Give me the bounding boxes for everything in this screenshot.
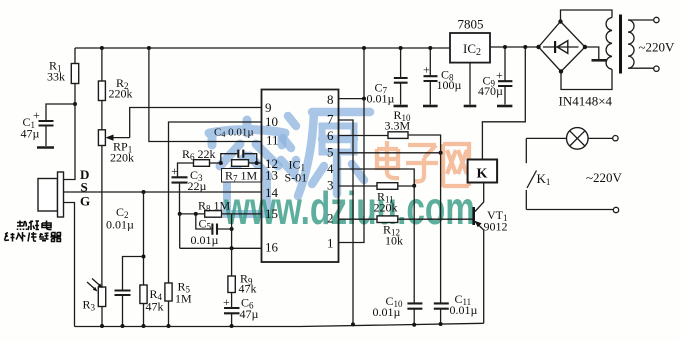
- node bus/pin8: [362, 46, 366, 50]
- svg-text:0.01µ: 0.01µ: [450, 303, 478, 317]
- svg-text:470µ: 470µ: [478, 84, 503, 98]
- switch K1: [526, 138, 550, 209]
- svg-text:22µ: 22µ: [188, 179, 207, 193]
- node bus/R2: [100, 46, 104, 50]
- node A pin12 net: [219, 161, 223, 165]
- wire pin 5: [339, 152, 441, 154]
- node bus/C9: [503, 45, 507, 49]
- capacitor C6: [223, 295, 259, 326]
- node bridge top corner: [558, 19, 562, 23]
- transformer secondary winding: [628, 20, 634, 68]
- svg-text:8: 8: [327, 92, 334, 107]
- lamp circuit top wire: [526, 137, 566, 139]
- wire bus to pin 11: [149, 48, 262, 142]
- svg-text:16: 16: [265, 240, 279, 255]
- svg-text:220k: 220k: [110, 151, 134, 165]
- node bus/C2: [121, 324, 125, 328]
- capacitor C9: [478, 47, 512, 105]
- terminal circle top: [654, 17, 659, 22]
- svg-text:+: +: [223, 295, 230, 309]
- capacitor C5: [191, 214, 232, 247]
- node bus/R3: [100, 324, 104, 328]
- svg-text:0.01µ: 0.01µ: [373, 305, 401, 319]
- ground bar under C7: [394, 105, 408, 108]
- bridge diode symbol: [543, 41, 579, 54]
- bridge rectifier diamond: [539, 22, 586, 72]
- node bridge left corner: [536, 45, 540, 49]
- svg-text:~220V: ~220V: [586, 170, 623, 185]
- capacitor C3: [171, 164, 207, 214]
- terminal circle lamp: [613, 136, 618, 141]
- capacitor C11: [434, 153, 478, 324]
- resistor R4: [140, 192, 164, 326]
- resistor R10: [339, 108, 441, 153]
- pyro sensor body: [38, 167, 90, 217]
- wire RP1 bottom to R3: [101, 146, 103, 288]
- svg-text:S-01: S-01: [285, 171, 308, 185]
- node bus/C6: [230, 324, 234, 328]
- node bus/C10: [412, 323, 416, 327]
- resistor R2: [98, 48, 132, 130]
- wire switch to terminal: [526, 209, 613, 211]
- svg-text:+: +: [423, 63, 430, 77]
- wire pin 8 to bus: [339, 48, 365, 99]
- resistor R8: [198, 199, 231, 218]
- wire C5 node vertical: [231, 214, 233, 248]
- terminal circle bottom right: [613, 207, 618, 212]
- wire pin8 node down to pin1: [339, 99, 365, 243]
- resistor R9: [228, 248, 257, 307]
- svg-text:14: 14: [265, 185, 279, 200]
- node bus/K feed: [523, 45, 527, 49]
- svg-text:1M: 1M: [175, 292, 192, 306]
- node B pin12 net: [255, 161, 259, 165]
- node R1/C1/D junction: [73, 102, 77, 106]
- lamp symbol: [567, 128, 589, 150]
- svg-text:6: 6: [327, 128, 334, 143]
- svg-text:~220V: ~220V: [639, 40, 676, 55]
- ground bar under C8: [423, 105, 438, 108]
- wire bridge top to transformer: [561, 10, 613, 22]
- svg-text:+: +: [496, 68, 503, 82]
- svg-text:R6 22k: R6 22k: [182, 147, 216, 162]
- wire pin 7 to ground bus: [339, 120, 354, 324]
- wire sensor G lead to ground bus: [64, 203, 75, 327]
- node bridge bottom corner: [559, 69, 563, 73]
- resistor R6: [178, 147, 221, 177]
- svg-text:1: 1: [327, 236, 334, 251]
- svg-text:R7 1M: R7 1M: [225, 169, 258, 184]
- svg-text:15: 15: [265, 206, 278, 221]
- capacitor C7: [367, 48, 408, 106]
- svg-text:+: +: [171, 164, 178, 178]
- wire bridge right to ground: [585, 47, 599, 59]
- node bus/pin7: [351, 322, 355, 326]
- node C3/R8/pin16 junction: [178, 212, 182, 216]
- wire RP1 wiper to pin 9: [130, 108, 262, 138]
- svg-text:0.01µ: 0.01µ: [106, 218, 134, 232]
- svg-text:47µ: 47µ: [21, 127, 40, 141]
- node R8 left / C5 branch: [194, 212, 198, 216]
- watermark salmon char WANG: [443, 144, 469, 187]
- wire K feed from bus: [482, 47, 525, 160]
- svg-text:7: 7: [327, 112, 334, 127]
- ground bar under IC2: [464, 105, 477, 108]
- svg-text:10k: 10k: [385, 234, 403, 248]
- capacitor C10: [373, 186, 423, 325]
- node pin4/R11/C10: [412, 184, 416, 188]
- svg-text:2: 2: [327, 211, 334, 226]
- wire secondary top terminal: [628, 19, 654, 21]
- svg-text:47k: 47k: [146, 300, 164, 314]
- svg-text:220k: 220k: [109, 87, 133, 101]
- wire bridge bottom to transformer: [561, 69, 612, 89]
- voltage regulator IC2 7805: [450, 17, 490, 105]
- label pyro sensor line2 (infrared sensor): [5, 232, 62, 242]
- capacitor C8: [423, 48, 462, 105]
- svg-text:R8 1M: R8 1M: [198, 199, 231, 214]
- wire lamp to terminal: [588, 137, 613, 139]
- svg-text:K: K: [477, 167, 488, 182]
- svg-text:0.01µ: 0.01µ: [367, 92, 395, 106]
- svg-text:7805: 7805: [458, 17, 484, 32]
- wire pin15 line: [180, 213, 262, 215]
- node bridge right corner: [583, 45, 587, 49]
- capacitor C2: [106, 205, 144, 326]
- svg-text:C4 0.01µ: C4 0.01µ: [214, 127, 254, 140]
- node bus/R4: [142, 324, 146, 328]
- svg-text:100µ: 100µ: [437, 78, 462, 92]
- node bus/C8: [428, 46, 432, 50]
- node bus/C11: [439, 322, 443, 326]
- wire pin 4: [339, 169, 415, 186]
- transformer core: [619, 15, 622, 74]
- svg-text:47k: 47k: [239, 282, 257, 296]
- svg-text:3: 3: [327, 178, 334, 193]
- resistor R5: [165, 280, 192, 327]
- watermark blue char YUAN: [281, 112, 370, 196]
- ground bar under C1: [37, 146, 54, 149]
- node R10/pin5/C11: [439, 151, 443, 155]
- node S/R4 junction: [142, 190, 146, 194]
- svg-text:10: 10: [265, 114, 278, 129]
- svg-text:0.01µ: 0.01µ: [191, 233, 219, 247]
- ground bus bottom: [75, 323, 484, 326]
- capacitor C4: [214, 127, 257, 164]
- wire sensor D lead: [64, 104, 76, 180]
- svg-text:3.3M: 3.3M: [385, 119, 411, 133]
- watermark salmon char ZI: [406, 145, 438, 181]
- wire pin 10 loop to R5: [169, 122, 262, 283]
- relay coil K: [468, 160, 498, 183]
- svg-text:5: 5: [327, 145, 334, 160]
- node pin16/R9 junction: [230, 246, 234, 250]
- transistor VT1 9012: [472, 183, 507, 323]
- svg-text:47µ: 47µ: [240, 307, 259, 321]
- node bus/R5: [167, 324, 171, 328]
- ground bar at bridge: [592, 59, 607, 62]
- watermark blue char RONG: [209, 120, 285, 214]
- node bus / pin11 feed: [147, 46, 151, 50]
- ground bar under C9: [497, 105, 512, 108]
- svg-text:220k: 220k: [374, 201, 398, 215]
- node R4/C2 branch: [142, 255, 146, 259]
- svg-text:9: 9: [265, 100, 272, 115]
- watermark salmon char DIAN: [377, 141, 399, 178]
- potentiometer RP1: [98, 130, 134, 165]
- wire pin16 line: [180, 214, 262, 248]
- node C5 right junction: [230, 227, 234, 231]
- op-amp IC1 S-01 box: [262, 90, 339, 263]
- terminal circle bottom: [654, 66, 659, 71]
- transformer primary winding: [606, 18, 612, 70]
- svg-text:IN4148×4: IN4148×4: [559, 94, 613, 109]
- label pyro sensor line1 (hot-release-electric): [17, 221, 52, 231]
- resistor R11: [339, 183, 415, 215]
- svg-text:9012: 9012: [484, 220, 508, 234]
- svg-text:G: G: [80, 194, 90, 209]
- resistor R12: [339, 216, 473, 248]
- resistor R7: [222, 160, 262, 184]
- node bus/C7: [399, 46, 403, 50]
- photoresistor R3: [83, 279, 106, 327]
- svg-text:13: 13: [265, 168, 278, 183]
- wire secondary bottom terminal: [628, 67, 654, 69]
- svg-text:4: 4: [327, 161, 334, 176]
- capacitor C1: [21, 104, 76, 146]
- resistor R1: [47, 48, 79, 104]
- top +V bus: [75, 47, 539, 48]
- wire sensor S lead to pin 14: [64, 191, 262, 193]
- node pin8 junction: [362, 97, 366, 101]
- svg-text:33k: 33k: [47, 70, 65, 84]
- svg-text:11: 11: [266, 133, 279, 148]
